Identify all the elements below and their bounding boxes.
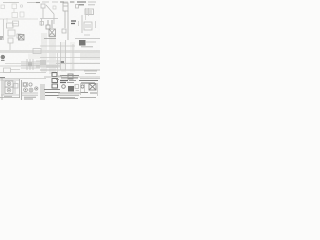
top wire of bottom band xyxy=(50,76,100,78)
connector J1 xyxy=(82,9,94,33)
junction cluster X1 xyxy=(21,59,40,70)
node N2 xyxy=(60,61,64,63)
title text dark xyxy=(77,2,86,5)
motor M3 xyxy=(80,84,97,94)
terminal row 2 xyxy=(57,93,80,98)
wire W5 xyxy=(56,62,100,64)
wire W3b xyxy=(5,63,40,65)
bottom text right xyxy=(80,97,96,99)
breaker CB1 xyxy=(62,85,66,89)
wire W1 xyxy=(3,19,5,40)
connector J4 dark xyxy=(79,40,96,46)
label row right xyxy=(84,71,97,74)
ground G1 xyxy=(0,37,3,39)
pigtail P2 xyxy=(40,19,44,27)
wire W7 xyxy=(80,78,100,80)
module M2 xyxy=(4,68,21,73)
terminal rows xyxy=(44,90,60,96)
splice dashes SD1 xyxy=(44,76,62,77)
wire W3 xyxy=(0,65,40,67)
connector J3 xyxy=(84,22,92,30)
vertical wire V3 xyxy=(57,53,59,72)
connector X-box N1 xyxy=(19,35,25,41)
distribution block D1 xyxy=(40,60,58,68)
bottom text mid xyxy=(60,98,78,100)
connector stubs mid xyxy=(75,85,79,91)
capacitor C1 xyxy=(62,29,66,33)
wire W8 xyxy=(0,78,46,80)
solenoid L1 xyxy=(68,86,74,92)
ground symbol GS1 xyxy=(1,55,5,60)
wire W4 xyxy=(0,72,46,74)
gauge label xyxy=(4,95,12,97)
harness tint H6 xyxy=(28,54,41,60)
gauge pointer dots xyxy=(8,83,9,91)
drop wire V5 xyxy=(86,8,89,20)
wire W2 xyxy=(75,38,100,40)
resistor R1 xyxy=(17,34,21,38)
switch S1 xyxy=(7,5,24,22)
vertical wire V2 xyxy=(65,40,67,70)
relay K2 xyxy=(52,79,58,89)
harness band H5 xyxy=(36,65,60,68)
harness band H3 xyxy=(40,84,45,100)
component row bottom-mid xyxy=(60,74,79,79)
text dashes row xyxy=(56,80,76,83)
cluster text xyxy=(24,97,36,99)
harness band H2 xyxy=(80,53,100,60)
splice mark xyxy=(0,77,5,79)
text darker dashes xyxy=(36,1,74,4)
ignition coil T1 xyxy=(63,3,68,40)
gauge assembly A1 xyxy=(0,78,20,100)
vertical wire V4 xyxy=(72,44,74,70)
module M1 xyxy=(7,23,16,36)
harness band H1 xyxy=(0,50,100,53)
wire W6b xyxy=(40,57,100,59)
terminal block TB1 xyxy=(52,73,57,77)
inline fuse IF1 xyxy=(76,5,79,9)
label FE xyxy=(71,21,76,24)
title text right faint xyxy=(88,2,96,5)
label L2 xyxy=(84,34,90,36)
harness band H4 xyxy=(36,60,60,63)
instrument cluster A2 xyxy=(21,80,38,100)
scan grain overlay xyxy=(0,0,100,100)
junction box JB1 xyxy=(13,21,19,26)
label row top right xyxy=(79,81,98,84)
label CO xyxy=(60,81,68,83)
bus shading column B xyxy=(49,33,56,74)
wire W0 xyxy=(0,18,38,20)
bus shading column C xyxy=(61,42,66,72)
bus shading column A xyxy=(41,33,47,72)
sensor B1 xyxy=(8,38,13,50)
label row J4 xyxy=(81,46,93,48)
wire stubs right xyxy=(81,83,98,96)
fuse F1 xyxy=(40,4,58,24)
wire W6 xyxy=(40,69,100,71)
wire W2b xyxy=(40,45,75,47)
bus shading column D xyxy=(70,42,75,72)
rect panel P1 xyxy=(33,49,41,54)
connector J2 xyxy=(44,20,56,39)
title text row xyxy=(3,1,75,4)
stub S2 xyxy=(79,21,96,28)
terminal T0 xyxy=(53,6,56,9)
vertical wire V1 xyxy=(60,42,62,70)
relay K1 xyxy=(1,4,18,18)
cluster dots xyxy=(25,88,37,91)
